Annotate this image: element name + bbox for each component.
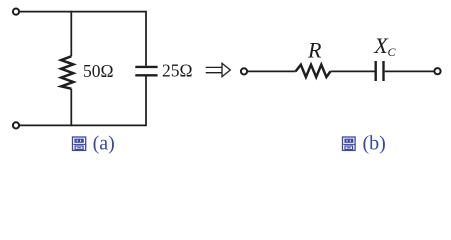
terminal right of circuit (b): [434, 68, 440, 74]
capacitor Xc left plate: [375, 61, 377, 81]
svg-text:(b): (b): [363, 132, 386, 154]
wire capacitor branch upper segment: [145, 11, 147, 66]
capacitor 25ohm bottom plate: [135, 74, 157, 76]
wire from capacitor Xc to right terminal: [385, 70, 434, 72]
wire capacitor branch lower segment: [145, 76, 147, 126]
capacitor Xc right plate: [382, 61, 384, 81]
arrow implies (double-line): [206, 63, 231, 76]
capacitor 25ohm top plate: [135, 66, 157, 68]
caption figure glyph (b): [343, 137, 356, 150]
svg-text:50Ω: 50Ω: [83, 61, 114, 81]
wire top of network (a): [20, 11, 146, 13]
resistor R zigzag: [296, 65, 331, 77]
resistor 50ohm zigzag: [61, 56, 73, 88]
terminal bottom-left of network (a): [13, 122, 19, 128]
wire bottom of network (a): [20, 124, 146, 126]
caption figure glyph (a): [73, 137, 86, 150]
svg-text:R: R: [307, 38, 322, 63]
wire from resistor R to capacitor Xc: [330, 70, 374, 72]
wire from left terminal to resistor R: [248, 70, 296, 72]
terminal left of circuit (b): [241, 68, 247, 74]
terminal top-left of network (a): [13, 9, 19, 15]
svg-text:(a): (a): [93, 132, 115, 154]
wire resistor branch lower segment: [70, 89, 72, 127]
wire resistor branch upper segment: [70, 11, 72, 57]
svg-text:25Ω: 25Ω: [162, 61, 193, 81]
svg-text:C: C: [388, 45, 397, 59]
